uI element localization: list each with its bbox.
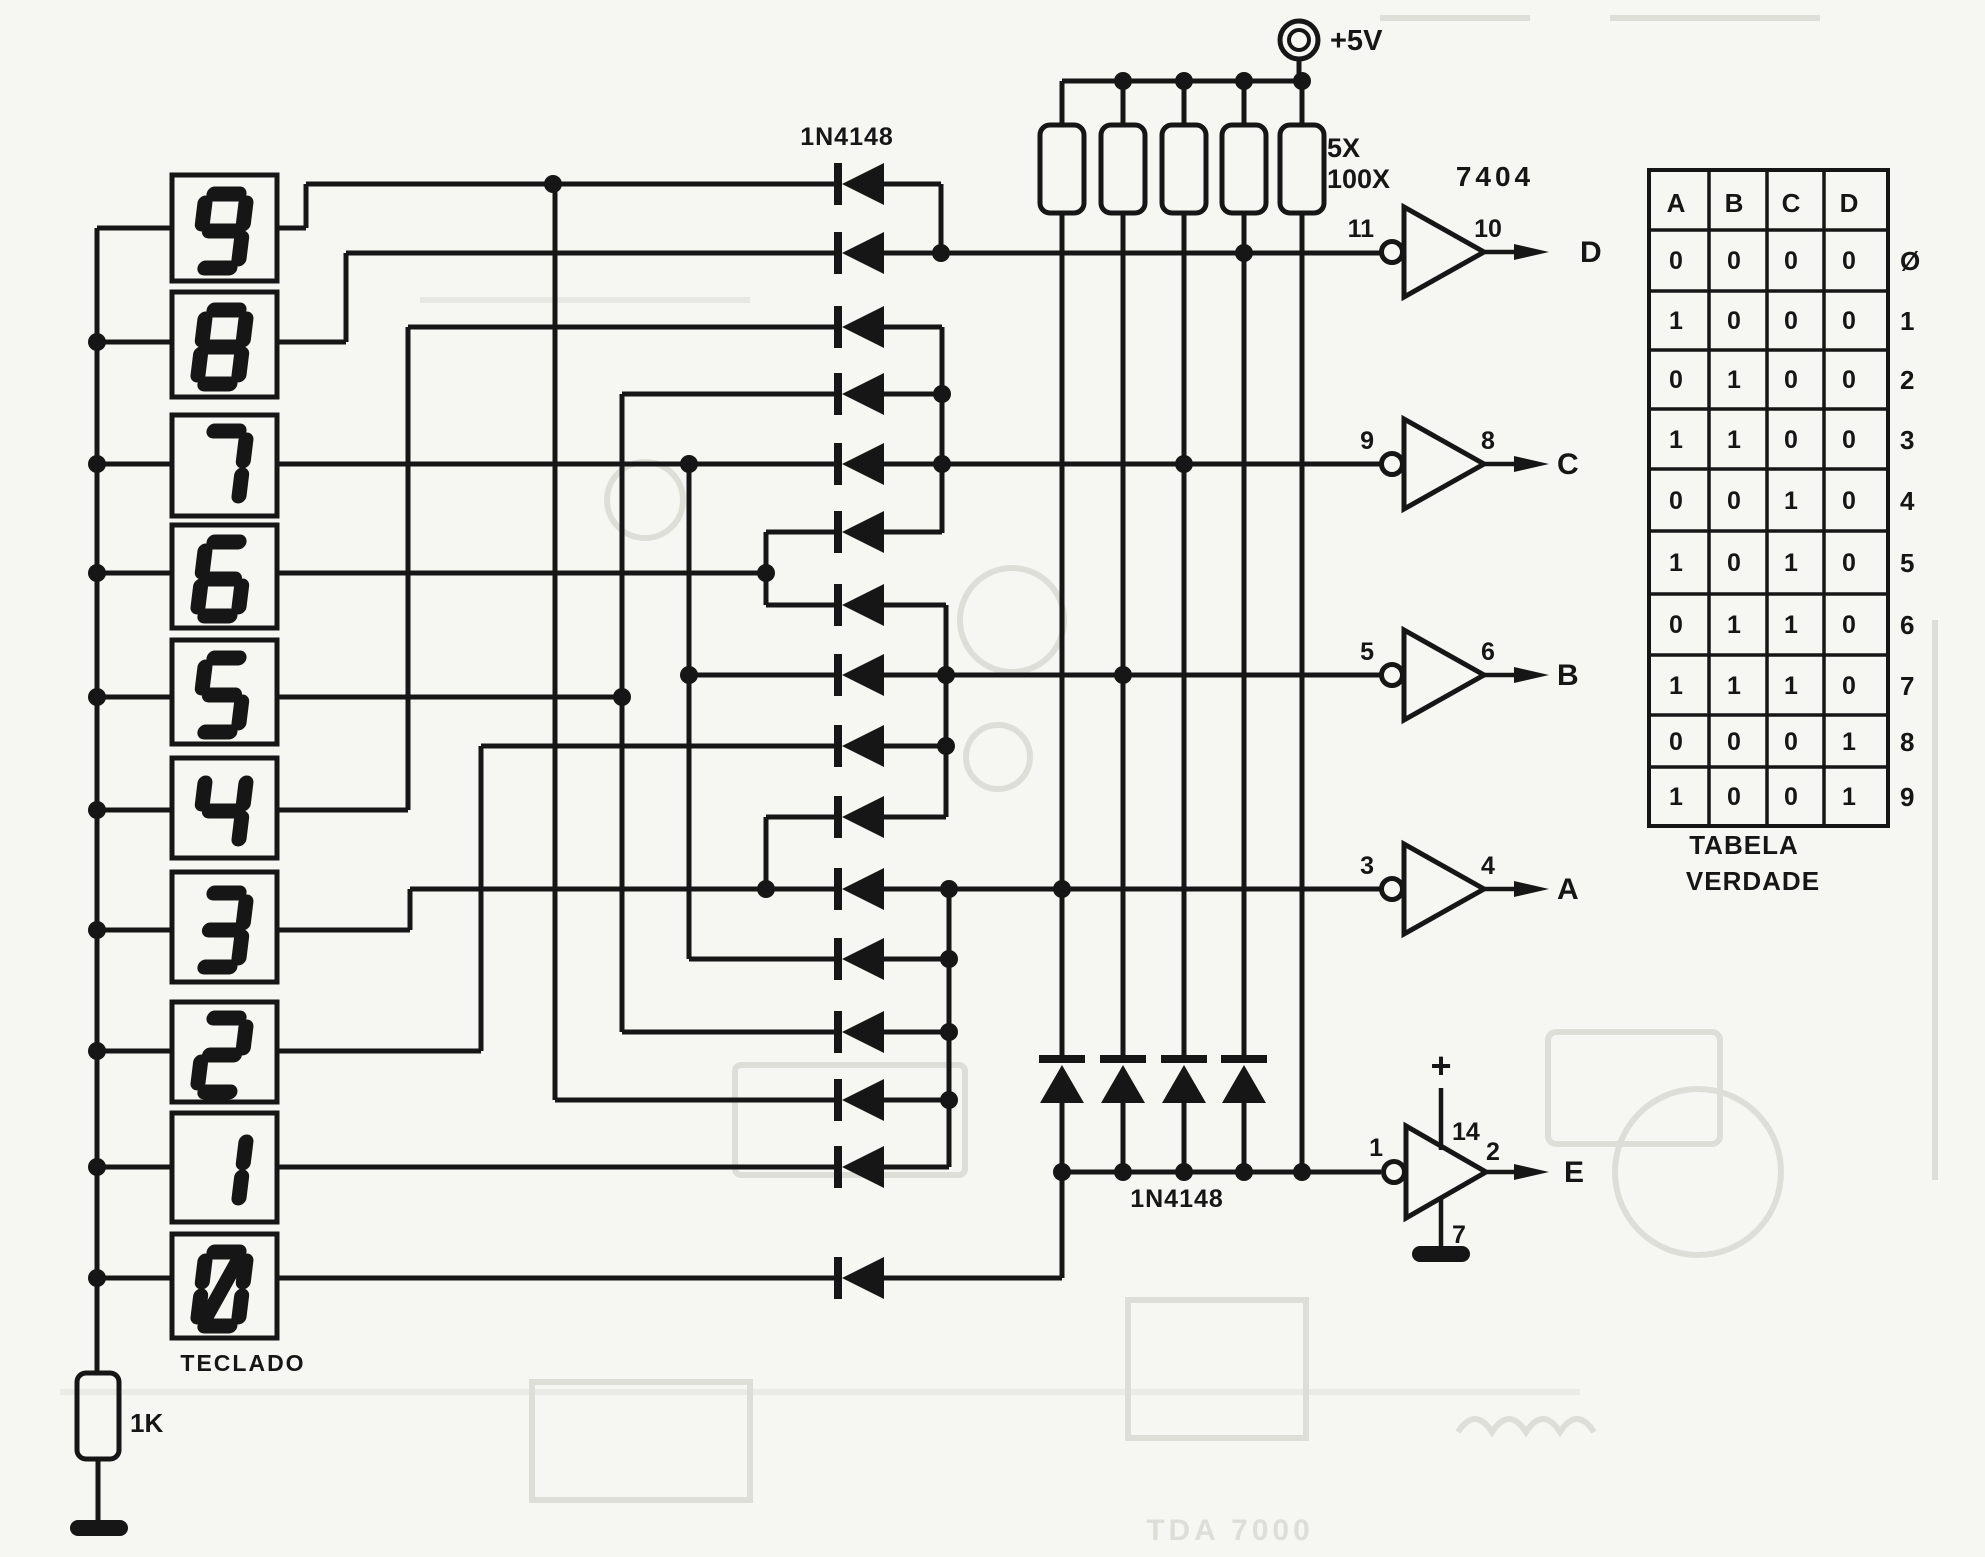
junction top bus / column 4 xyxy=(1235,72,1253,90)
diode D20 1N4148 (E line) xyxy=(1221,1055,1267,1103)
svg-text:0: 0 xyxy=(1784,783,1798,811)
+5V supply terminal xyxy=(1280,21,1318,59)
wire key 3 jog horizontal xyxy=(277,928,410,933)
svg-text:1: 1 xyxy=(1669,783,1683,811)
svg-text:8: 8 xyxy=(1900,727,1914,757)
svg-text:0: 0 xyxy=(1727,487,1741,515)
junction D14 output xyxy=(940,1091,958,1109)
wire diode D12 output xyxy=(884,957,949,962)
svg-text:0: 0 xyxy=(1727,783,1741,811)
junction key 3 line / jog to D10 xyxy=(757,880,775,898)
junction bus / key 2 xyxy=(88,1042,106,1060)
svg-text:0: 0 xyxy=(1784,307,1798,335)
svg-text:11: 11 xyxy=(1348,215,1375,243)
inverter 7404 gate output A xyxy=(1382,844,1550,934)
wire bus to resistor R1 xyxy=(1060,81,1065,125)
junction D13 output xyxy=(940,1023,958,1041)
wire key 2 vertical xyxy=(479,746,484,1051)
wire key 8 jog vertical xyxy=(344,253,349,342)
svg-text:0: 0 xyxy=(1842,307,1856,335)
wire diode D10 output xyxy=(884,815,946,820)
wire key 3 jog vertical xyxy=(408,889,413,930)
wire 7404 GND pin 7 xyxy=(1439,1198,1444,1248)
wire column 5 vertical to E line xyxy=(1300,213,1305,1172)
junction top bus / column 5 xyxy=(1293,72,1311,90)
svg-text:C: C xyxy=(1557,448,1579,481)
svg-text:+5V: +5V xyxy=(1330,25,1383,57)
wire diode D17 to E line xyxy=(1060,1103,1065,1172)
keypad key "5" switch box xyxy=(172,640,277,744)
junction top bus / column 2 xyxy=(1114,72,1132,90)
wire row D1 (key 9) to diode xyxy=(306,182,838,187)
wire +5V to top bus xyxy=(1297,59,1302,81)
wire diode D15 output xyxy=(884,1165,949,1170)
inverter 7404 gate output D xyxy=(1382,207,1550,297)
wire key 0 left pin to bus xyxy=(97,1276,172,1281)
seven-segment digit 8 xyxy=(197,310,247,384)
junction bus / key 8 xyxy=(88,333,106,351)
wire diode D7 output xyxy=(884,603,946,608)
svg-text:1: 1 xyxy=(1784,549,1798,577)
diode D6 1N4148 xyxy=(834,511,884,553)
diode D15 1N4148 xyxy=(834,1146,884,1188)
svg-text:B: B xyxy=(1725,188,1744,218)
diode D18 1N4148 (E line) xyxy=(1100,1055,1146,1103)
svg-text:1: 1 xyxy=(1669,426,1683,454)
wire key 0 riser to E line xyxy=(1060,1172,1065,1278)
svg-text:5: 5 xyxy=(1900,548,1914,578)
wire D1 to D line xyxy=(939,184,944,253)
wire to diode D6 xyxy=(766,530,838,535)
svg-text:1: 1 xyxy=(1669,307,1683,335)
wire key 8 left pin to bus xyxy=(97,340,172,345)
wire to diode D14 xyxy=(555,1098,838,1103)
seven-segment digit 6 xyxy=(197,542,247,616)
svg-text:0: 0 xyxy=(1842,487,1856,515)
junction top bus / column 3 xyxy=(1175,72,1193,90)
svg-text:0: 0 xyxy=(1784,728,1798,756)
svg-text:0: 0 xyxy=(1784,247,1798,275)
diode D14 1N4148 xyxy=(834,1079,884,1121)
svg-text:1: 1 xyxy=(1784,611,1798,639)
diode D7 1N4148 xyxy=(834,584,884,626)
wire bus to resistor R2 xyxy=(1121,81,1126,125)
truth table row rule xyxy=(1649,407,1888,411)
ground symbol (7404 pin 7) xyxy=(1412,1246,1470,1262)
seven-segment digit 4 xyxy=(198,783,246,839)
resistor R1 pull-up xyxy=(1040,125,1084,213)
junction key 7 vertical / diode D8 input xyxy=(680,666,698,684)
junction D4 output xyxy=(933,385,951,403)
wire bus to resistor R5 xyxy=(1300,81,1305,125)
svg-text:1: 1 xyxy=(1669,672,1683,700)
junction bus / key 6 xyxy=(88,564,106,582)
svg-text:TECLADO: TECLADO xyxy=(180,1350,305,1376)
resistor R2 pull-up xyxy=(1101,125,1145,213)
wire to diode D10 xyxy=(766,815,838,820)
keypad key "0" switch box xyxy=(172,1234,277,1338)
wire key 7 vertical (B feed) xyxy=(687,464,692,959)
wire key 3 to diode D11 xyxy=(410,887,838,892)
junction B line / pull-up column 2 xyxy=(1114,666,1132,684)
resistor R5 pull-up xyxy=(1280,125,1324,213)
wire jog to diode D10 xyxy=(764,817,769,889)
svg-text:0: 0 xyxy=(1669,611,1683,639)
svg-text:VERDADE: VERDADE xyxy=(1686,866,1820,896)
diode D17 1N4148 (E line) xyxy=(1039,1055,1085,1103)
svg-text:0: 0 xyxy=(1669,366,1683,394)
svg-text:1N4148: 1N4148 xyxy=(1130,1185,1224,1213)
svg-text:A: A xyxy=(1667,188,1686,218)
wire key 9 jog vertical xyxy=(304,184,309,228)
wire key 0 to diode D16 xyxy=(277,1276,838,1281)
wire diode D4 output xyxy=(884,392,942,397)
seven-segment digit 5 xyxy=(197,658,247,732)
keypad key "8" switch box xyxy=(172,292,277,397)
svg-text:4: 4 xyxy=(1900,486,1915,516)
diode D10 1N4148 xyxy=(834,796,884,838)
wire column 3 vertical xyxy=(1182,213,1187,1055)
diode D19 1N4148 (E line) xyxy=(1161,1055,1207,1103)
truth table row rule xyxy=(1649,348,1888,352)
wire key 9 left pin to bus xyxy=(97,226,172,231)
svg-text:5: 5 xyxy=(1360,638,1374,666)
svg-text:+: + xyxy=(1430,1045,1451,1086)
wire to diode D12 xyxy=(689,957,838,962)
junction bus / key 5 xyxy=(88,688,106,706)
svg-text:0: 0 xyxy=(1842,672,1856,700)
junction E line xyxy=(1175,1163,1193,1181)
diode D8 1N4148 xyxy=(834,654,884,696)
diode D12 1N4148 xyxy=(834,938,884,980)
svg-text:D: D xyxy=(1840,188,1859,218)
seven-segment digit 2 xyxy=(197,1018,247,1092)
svg-text:0: 0 xyxy=(1842,611,1856,639)
svg-text:1N4148: 1N4148 xyxy=(800,123,894,151)
junction bus / key 1 xyxy=(88,1158,106,1176)
svg-text:0: 0 xyxy=(1842,426,1856,454)
wire diode D1 output xyxy=(884,182,941,187)
wire top bus xyxy=(1062,79,1299,84)
svg-text:1: 1 xyxy=(1842,783,1856,811)
junction key 7 line / vertical xyxy=(680,455,698,473)
svg-text:0: 0 xyxy=(1727,728,1741,756)
wire 7404 Vcc pin 14 xyxy=(1439,1088,1444,1150)
svg-text:0: 0 xyxy=(1727,307,1741,335)
wire bus to resistor R3 xyxy=(1182,81,1187,125)
svg-text:Ø: Ø xyxy=(1900,246,1920,276)
svg-text:1: 1 xyxy=(1900,306,1914,336)
keypad key "9" switch box xyxy=(172,175,277,281)
truth table row rule xyxy=(1649,713,1888,717)
svg-text:1: 1 xyxy=(1369,1134,1383,1162)
wire key 8 jog horizontal xyxy=(277,340,346,345)
truth table frame TABELA VERDADE xyxy=(1649,170,1888,826)
junction D line / D1 xyxy=(932,244,950,262)
wire line D to inverter xyxy=(884,251,1381,256)
svg-text:0: 0 xyxy=(1669,487,1683,515)
junction E line xyxy=(1114,1163,1132,1181)
keypad key "6" switch box xyxy=(172,525,277,628)
truth table row rule xyxy=(1649,765,1888,769)
svg-text:1: 1 xyxy=(1784,487,1798,515)
wire key 6 line xyxy=(277,571,766,576)
resistor 1K xyxy=(77,1373,119,1459)
diode D4 1N4148 xyxy=(834,373,884,415)
truth table row rule xyxy=(1649,653,1888,657)
diode D5 1N4148 xyxy=(834,443,884,485)
wire key 3 left pin to bus xyxy=(97,928,172,933)
wire to diode D3 xyxy=(408,325,838,330)
truth table row rule xyxy=(1649,592,1888,596)
seven-segment digit 7 xyxy=(206,431,247,496)
svg-text:B: B xyxy=(1557,659,1579,692)
seven-segment digit 1 xyxy=(239,1142,246,1198)
wire bus to resistor R4 xyxy=(1242,81,1247,125)
truth table column rule xyxy=(1765,170,1769,826)
wire diode D9 output xyxy=(884,744,946,749)
wire D3/D4/D6 collection vertical xyxy=(940,327,945,533)
junction E line xyxy=(1293,1163,1311,1181)
seven-segment digit 9 xyxy=(197,194,247,268)
wire line E to inverter xyxy=(1062,1170,1381,1175)
svg-text:1: 1 xyxy=(1842,728,1856,756)
svg-text:0: 0 xyxy=(1784,426,1798,454)
svg-text:0: 0 xyxy=(1784,366,1798,394)
wire to diode D9 xyxy=(481,744,838,749)
keypad key "4" switch box xyxy=(172,758,277,858)
junction E line xyxy=(1053,1163,1071,1181)
wire column 2 vertical xyxy=(1121,213,1126,1055)
junction bus / key 4 xyxy=(88,801,106,819)
diode D11 1N4148 xyxy=(834,868,884,910)
seven-segment digit 3 xyxy=(205,893,247,967)
wire line B to inverter xyxy=(884,673,1381,678)
svg-text:1K: 1K xyxy=(130,1408,163,1438)
wire key 2 jog horizontal xyxy=(277,1049,481,1054)
svg-text:14: 14 xyxy=(1452,1118,1480,1146)
diode D3 1N4148 xyxy=(834,306,884,348)
svg-text:3: 3 xyxy=(1900,425,1914,455)
junction E line xyxy=(1235,1163,1253,1181)
svg-text:7404: 7404 xyxy=(1456,161,1534,192)
wire column 4 vertical xyxy=(1242,213,1247,1055)
wire key 1 left pin to bus xyxy=(97,1165,172,1170)
junction A line / pull-up column 1 xyxy=(1053,880,1071,898)
wire key 8 to diode D2 xyxy=(346,251,838,256)
junction bus / key 0 xyxy=(88,1269,106,1287)
wire key 5 vertical xyxy=(620,394,625,1032)
svg-text:5X: 5X xyxy=(1327,133,1360,163)
svg-text:4: 4 xyxy=(1481,852,1495,880)
wire diode D13 output xyxy=(884,1030,949,1035)
resistor R4 pull-up xyxy=(1222,125,1266,213)
wire to diode D8 xyxy=(689,673,838,678)
junction B line / collection vertical xyxy=(937,666,955,684)
junction A line / collection vertical xyxy=(940,880,958,898)
wire diode D16 output (key 0) xyxy=(884,1276,1062,1281)
junction bus / key 7 xyxy=(88,455,106,473)
junction bus / key 3 xyxy=(88,921,106,939)
truth table row rule xyxy=(1649,228,1888,232)
svg-text:2: 2 xyxy=(1486,1138,1500,1166)
diode D9 1N4148 xyxy=(834,725,884,767)
junction key 9 line / long vertical xyxy=(544,175,562,193)
wire to diode D13 xyxy=(622,1030,838,1035)
junction C line / collection vertical xyxy=(933,455,951,473)
svg-text:1: 1 xyxy=(1727,426,1741,454)
diode D13 1N4148 xyxy=(834,1011,884,1053)
svg-text:D: D xyxy=(1580,236,1602,269)
junction key 5 line / vertical xyxy=(613,688,631,706)
svg-text:8: 8 xyxy=(1481,427,1495,455)
svg-text:A: A xyxy=(1557,873,1579,906)
wire key 7 line to diode D5 xyxy=(277,462,838,467)
svg-text:0: 0 xyxy=(1842,549,1856,577)
diode D16 1N4148 xyxy=(834,1257,884,1299)
inverter 7404 gate output E xyxy=(1384,1126,1550,1218)
wire diode D20 to E line xyxy=(1242,1103,1247,1172)
diode D2 1N4148 xyxy=(834,232,884,274)
wire key 6 left pin to bus xyxy=(97,571,172,576)
keypad key "7" switch box xyxy=(172,415,277,516)
wire diode D3 output xyxy=(884,325,942,330)
seven-segment digit 0 xyxy=(197,1252,247,1326)
svg-text:TABELA: TABELA xyxy=(1689,830,1799,860)
diode D1 1N4148 xyxy=(834,163,884,205)
wire key 5 left pin to bus xyxy=(97,695,172,700)
keypad key "1" switch box xyxy=(172,1113,277,1222)
junction C line / pull-up column 3 xyxy=(1175,455,1193,473)
keypad key "2" switch box xyxy=(172,1002,277,1102)
wire D12-D15 collection vertical xyxy=(947,889,952,1167)
wire D7/D9/D10 collection vertical xyxy=(944,605,949,817)
wire key 4 vertical xyxy=(406,327,411,810)
wire key 4 jog horizontal xyxy=(277,808,408,813)
ground symbol (keypad) xyxy=(70,1520,128,1536)
svg-text:0: 0 xyxy=(1727,549,1741,577)
svg-text:0: 0 xyxy=(1669,247,1683,275)
truth table row rule xyxy=(1649,529,1888,533)
wire key 7 left pin to bus xyxy=(97,462,172,467)
svg-text:7: 7 xyxy=(1900,671,1914,701)
wire key 9 long vertical to diode D14 xyxy=(553,184,558,1100)
svg-text:TDA 7000: TDA 7000 xyxy=(1146,1514,1314,1547)
svg-text:0: 0 xyxy=(1727,247,1741,275)
wire resistor 1K to ground xyxy=(96,1459,101,1524)
keypad key "3" switch box xyxy=(172,872,277,982)
truth table column rule xyxy=(1822,170,1826,826)
junction D9 output xyxy=(937,737,955,755)
svg-text:0: 0 xyxy=(1669,728,1683,756)
wire to diode D4 xyxy=(622,392,838,397)
svg-text:1: 1 xyxy=(1727,672,1741,700)
wire key 9 jog horizontal xyxy=(277,226,306,231)
svg-text:9: 9 xyxy=(1900,782,1914,812)
svg-text:1: 1 xyxy=(1727,366,1741,394)
wire key 4 left pin to bus xyxy=(97,808,172,813)
wire key 2 left pin to bus xyxy=(97,1049,172,1054)
wire diode D6 output xyxy=(884,530,942,535)
wire column 1 vertical xyxy=(1060,213,1065,1055)
svg-text:9: 9 xyxy=(1360,427,1374,455)
svg-text:10: 10 xyxy=(1474,215,1502,243)
svg-text:0: 0 xyxy=(1842,366,1856,394)
junction D12 output xyxy=(940,950,958,968)
truth table row rule xyxy=(1649,289,1888,293)
svg-text:1: 1 xyxy=(1727,611,1741,639)
junction key 6 line xyxy=(757,564,775,582)
wire key 6 jog vertical xyxy=(764,532,769,605)
wire left common bus vertical xyxy=(95,228,100,1373)
resistor R3 pull-up xyxy=(1162,125,1206,213)
wire diode D14 output xyxy=(884,1098,949,1103)
svg-text:2: 2 xyxy=(1900,365,1914,395)
truth table row rule xyxy=(1649,467,1888,471)
wire diode D19 to E line xyxy=(1182,1103,1187,1172)
svg-text:7: 7 xyxy=(1452,1221,1466,1249)
svg-text:3: 3 xyxy=(1360,852,1374,880)
svg-text:0: 0 xyxy=(1842,247,1856,275)
svg-text:C: C xyxy=(1782,188,1801,218)
wire diode D18 to E line xyxy=(1121,1103,1126,1172)
truth table column rule xyxy=(1707,170,1711,826)
junction D line / pull-up column 4 xyxy=(1235,244,1253,262)
svg-text:6: 6 xyxy=(1900,610,1914,640)
svg-text:6: 6 xyxy=(1481,638,1495,666)
svg-text:1: 1 xyxy=(1784,672,1798,700)
svg-text:100X: 100X xyxy=(1327,164,1390,194)
wire line C to inverter xyxy=(884,462,1381,467)
wire key 5 line xyxy=(277,695,622,700)
svg-text:E: E xyxy=(1564,1156,1584,1189)
svg-text:1: 1 xyxy=(1669,549,1683,577)
wire to diode D7 xyxy=(766,603,838,608)
wire line A to inverter xyxy=(884,887,1381,892)
wire key 1 to diode D15 xyxy=(277,1165,838,1170)
inverter 7404 gate output C xyxy=(1382,419,1550,509)
inverter 7404 gate output B xyxy=(1382,630,1550,720)
